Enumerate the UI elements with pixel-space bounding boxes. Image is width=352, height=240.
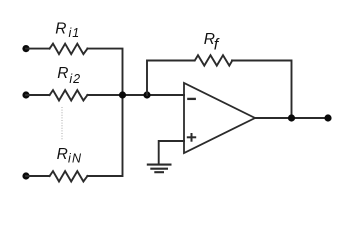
- label Ri2: [57, 65, 81, 86]
- op-amp non-inverting input plus sign: [187, 133, 196, 142]
- op-amp inverting input minus sign: [187, 98, 196, 100]
- node summing junction: [143, 91, 150, 98]
- resistor Ri1: [50, 44, 88, 54]
- wire inputN to RiN: [26, 175, 49, 177]
- wire Ri2 to op-amp inverting input: [87, 94, 184, 96]
- label RiN: [57, 146, 83, 166]
- svg-text:R: R: [55, 21, 66, 38]
- wire input1 to Ri1: [26, 48, 49, 50]
- input terminal dot N: [22, 172, 29, 179]
- op-amp U1: [184, 83, 255, 153]
- svg-text:iN: iN: [68, 152, 82, 166]
- output terminal dot: [324, 114, 331, 121]
- continuation dots between Ri2 and RiN: [61, 107, 63, 140]
- resistor Rf: [195, 55, 233, 65]
- wire Ri1 to bus: [87, 49, 122, 95]
- resistor Ri2: [50, 90, 88, 100]
- wire input2 to Ri2: [26, 94, 49, 96]
- resistor RiN: [50, 171, 88, 181]
- wire Rf to output node: [232, 61, 292, 119]
- label Ri1: [55, 21, 80, 40]
- ground: [147, 165, 172, 173]
- wire RiN to bus: [87, 95, 122, 176]
- label Rf: [204, 31, 220, 53]
- svg-text:i2: i2: [69, 72, 81, 86]
- svg-text:R: R: [57, 146, 68, 163]
- wire summing node up to feedback: [147, 61, 194, 96]
- input terminal dot 2: [22, 91, 29, 98]
- wire op-amp output: [255, 117, 328, 119]
- node feedback/output junction: [288, 114, 295, 121]
- svg-text:i1: i1: [69, 26, 81, 40]
- node bus junction: [119, 91, 126, 98]
- svg-text:R: R: [57, 65, 68, 82]
- svg-text:f: f: [214, 37, 220, 54]
- wire non-inverting input to ground: [159, 141, 184, 164]
- input terminal dot 1: [22, 45, 29, 52]
